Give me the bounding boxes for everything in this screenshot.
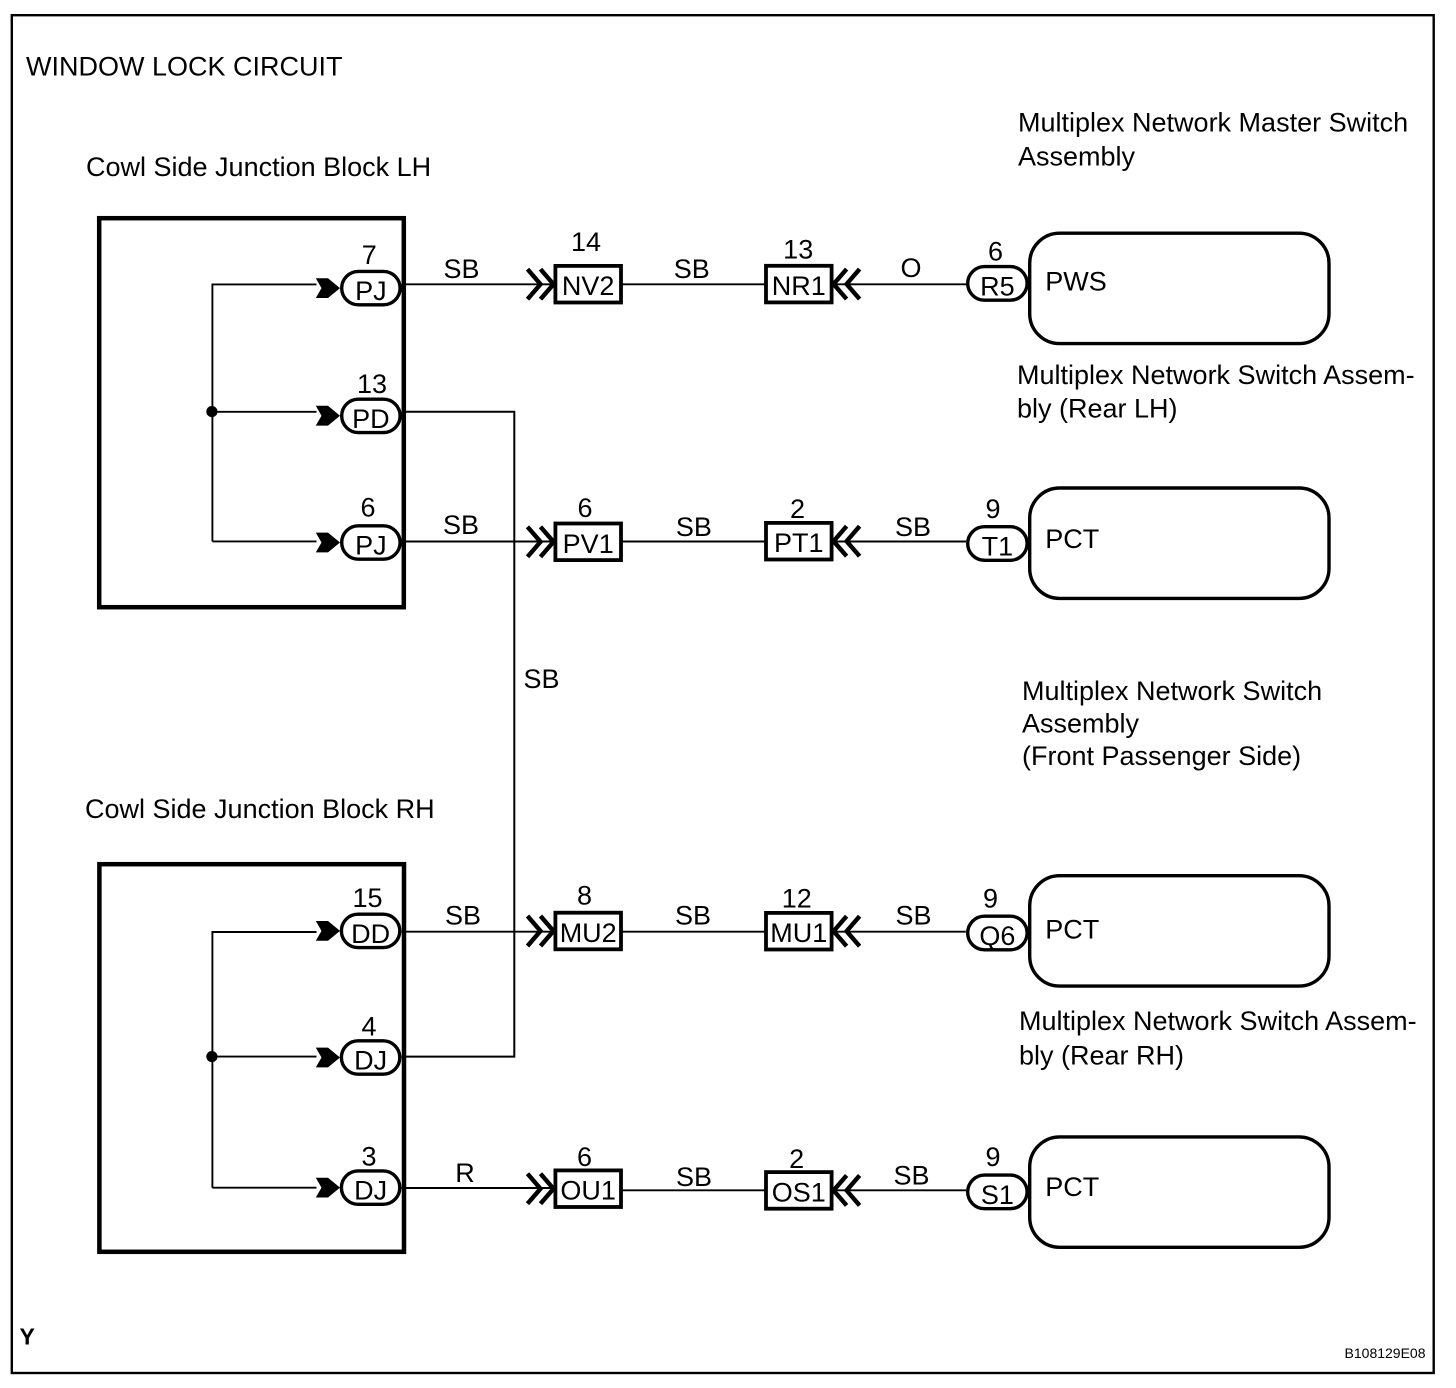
svg-text:NR1: NR1 [772,271,826,301]
svg-text:3: 3 [361,1142,376,1172]
svg-text:MU2: MU2 [560,918,617,948]
svg-text:R: R [455,1158,475,1188]
svg-text:MU1: MU1 [770,918,827,948]
svg-text:SB: SB [674,254,710,284]
svg-text:14: 14 [571,227,601,257]
svg-text:SB: SB [675,901,711,931]
svg-text:9: 9 [985,494,1000,524]
svg-text:2: 2 [790,494,805,524]
svg-text:PV1: PV1 [563,529,614,559]
svg-text:6: 6 [988,236,1003,266]
svg-text:SB: SB [524,664,560,694]
svg-text:2: 2 [789,1144,804,1174]
svg-text:bly (Rear LH): bly (Rear LH) [1017,394,1178,424]
svg-text:SB: SB [676,512,712,542]
svg-text:NV2: NV2 [562,271,615,301]
svg-text:OU1: OU1 [560,1176,616,1206]
svg-text:SB: SB [895,512,931,542]
svg-text:PJ: PJ [355,531,387,561]
svg-text:B108129E08: B108129E08 [1345,1345,1426,1361]
svg-text:Assembly: Assembly [1018,142,1136,172]
svg-text:SB: SB [443,510,479,540]
svg-text:SB: SB [896,901,932,931]
svg-text:PCT: PCT [1045,524,1099,554]
svg-text:DJ: DJ [354,1176,387,1206]
svg-text:O: O [900,253,921,283]
svg-text:OS1: OS1 [772,1177,826,1207]
svg-text:DD: DD [351,919,390,949]
svg-text:6: 6 [360,492,375,522]
svg-text:DJ: DJ [354,1046,387,1076]
svg-text:WINDOW LOCK CIRCUIT: WINDOW LOCK CIRCUIT [26,52,343,82]
svg-text:PT1: PT1 [774,528,824,558]
svg-text:PD: PD [352,404,390,434]
svg-text:Assembly: Assembly [1022,709,1140,739]
svg-text:6: 6 [577,493,592,523]
svg-text:SB: SB [894,1161,930,1191]
svg-text:13: 13 [357,369,387,399]
svg-text:Multiplex Network Master Switc: Multiplex Network Master Switch [1018,108,1408,138]
svg-text:PJ: PJ [355,276,387,306]
svg-text:9: 9 [985,1142,1000,1172]
svg-text:T1: T1 [982,532,1014,562]
svg-text:SB: SB [444,254,480,284]
svg-text:Multiplex Network Switch Assem: Multiplex Network Switch Assem- [1019,1006,1417,1036]
svg-text:Multiplex Network Switch: Multiplex Network Switch [1022,676,1322,706]
svg-text:6: 6 [577,1142,592,1172]
svg-text:15: 15 [352,883,382,913]
svg-text:12: 12 [782,884,812,914]
svg-text:Cowl Side Junction Block LH: Cowl Side Junction Block LH [86,152,431,182]
svg-text:PWS: PWS [1045,267,1107,297]
svg-text:SB: SB [445,901,481,931]
svg-text:PCT: PCT [1045,915,1099,945]
svg-text:Multiplex Network Switch Assem: Multiplex Network Switch Assem- [1017,360,1415,390]
svg-text:PCT: PCT [1045,1172,1099,1202]
svg-text:Y: Y [20,1324,35,1350]
svg-text:(Front Passenger Side): (Front Passenger Side) [1022,741,1301,771]
svg-text:4: 4 [361,1012,376,1042]
svg-text:9: 9 [983,884,998,914]
svg-text:bly (Rear RH): bly (Rear RH) [1019,1041,1184,1071]
svg-text:SB: SB [676,1162,712,1192]
svg-text:Cowl Side Junction Block RH: Cowl Side Junction Block RH [85,794,435,824]
svg-text:8: 8 [577,881,592,911]
svg-text:7: 7 [362,240,377,270]
svg-text:Q6: Q6 [979,921,1015,951]
svg-text:13: 13 [783,235,813,265]
svg-text:S1: S1 [981,1180,1014,1210]
svg-text:R5: R5 [980,271,1015,301]
